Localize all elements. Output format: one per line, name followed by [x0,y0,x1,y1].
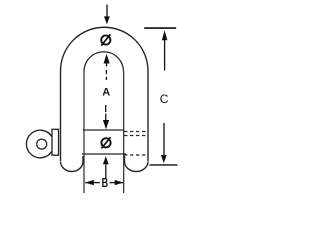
right leg inner line / B extension [123,72,125,194]
svg-text:A: A [102,87,110,99]
C bottom arrow (down) [161,123,167,163]
pin hidden line upper (dashed, right leg) [124,131,148,133]
pin diameter symbol [101,137,110,148]
dimension A bottom arrow (down, at pin top) [103,105,109,129]
pin eye hole [37,139,47,149]
pin top line [83,129,124,131]
pin diameter lower arrow (up, at pin bottom) [103,156,109,178]
dimension A top arrow (up) [104,54,110,80]
dimension B line left arrow [85,180,100,185]
C top arrow (up) [162,30,168,70]
svg-text:C: C [160,92,169,106]
C top extension tick [144,27,176,29]
bow diameter symbol [101,34,110,45]
right leg rounded bottom [125,156,149,172]
right leg outer line [147,71,149,162]
top bow diameter arrow (down) [104,5,110,25]
pin bottom line [82,153,126,155]
pin collar [52,129,59,155]
pin eye circle [26,130,52,158]
C bottom extension tick [150,164,178,166]
shackle bow inner arc [84,52,124,72]
svg-text:B: B [102,177,109,191]
pin hidden line lower (dashed, right leg) [124,154,148,156]
shackle bow outer arc [61,27,149,71]
pin hidden line second (dashed, right leg) [124,135,148,137]
dimension B line right arrow [110,180,124,185]
left leg rounded bottom [61,156,84,172]
left leg inner line / B extension [83,72,85,194]
left leg outer line [60,71,62,162]
